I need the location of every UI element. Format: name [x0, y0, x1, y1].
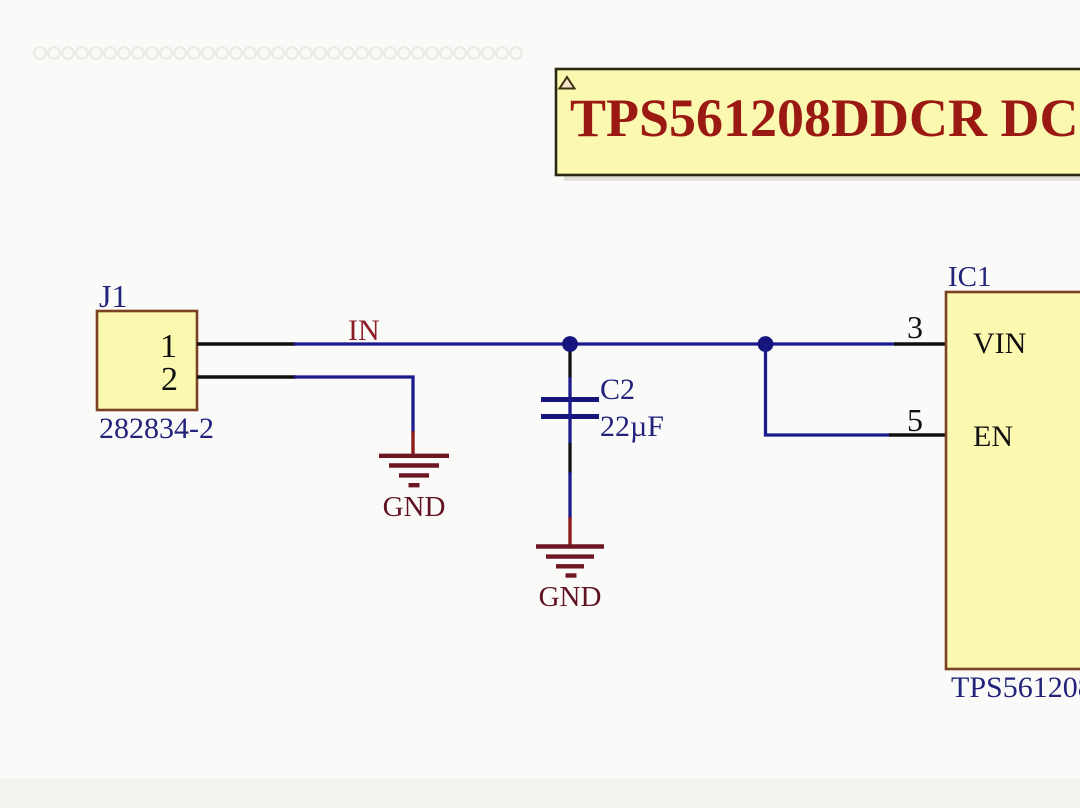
op-amp IC1 body	[946, 292, 1080, 669]
connector J1 body	[97, 311, 197, 410]
ground GND2 symbol	[536, 547, 604, 576]
svg-text:3: 3	[907, 309, 923, 345]
pin 3 line	[894, 342, 947, 345]
capacitor C2 lower lead black	[568, 443, 571, 473]
svg-text:22µF: 22µF	[600, 410, 664, 443]
ground lead GND2	[568, 517, 571, 546]
ground lead GND1	[411, 431, 414, 455]
title block	[556, 69, 1080, 175]
pin 5 line	[889, 433, 947, 436]
watermark dotted row	[34, 47, 522, 59]
wire IN main	[294, 342, 896, 345]
capacitor C2 upper lead blue	[568, 377, 571, 398]
wire EN branch	[766, 344, 892, 435]
title block shadow	[564, 78, 1080, 181]
title marker triangle	[560, 77, 575, 89]
wire pin2 to ground	[294, 377, 413, 433]
ground GND1 symbol	[379, 456, 449, 485]
capacitor C2 upper lead	[568, 350, 571, 378]
capacitor C2 plates	[541, 400, 599, 417]
capacitor C2 lower wire blue	[568, 472, 571, 519]
svg-text:282834-2: 282834-2	[99, 412, 214, 445]
pin 2 line	[197, 375, 296, 378]
svg-text:EN: EN	[973, 420, 1013, 453]
svg-text:1: 1	[160, 328, 177, 365]
junction node dot 2	[758, 336, 774, 352]
bottom band	[0, 779, 1080, 808]
junction node dot 1	[562, 336, 578, 352]
pin 1 line	[197, 342, 296, 345]
svg-text:IC1: IC1	[948, 261, 992, 293]
svg-text:TPS561208DDCR: TPS561208DDCR	[951, 671, 1080, 704]
svg-text:VIN: VIN	[973, 327, 1026, 360]
svg-text:GND: GND	[539, 581, 602, 613]
svg-text:GND: GND	[383, 491, 446, 523]
capacitor C2 mid line	[568, 399, 571, 443]
svg-text:J1: J1	[99, 278, 127, 314]
svg-text:TPS561208DDCR DC-DC: TPS561208DDCR DC-DC	[570, 88, 1080, 148]
svg-text:IN: IN	[348, 314, 380, 347]
svg-text:2: 2	[161, 361, 178, 398]
svg-text:C2: C2	[600, 373, 635, 406]
svg-text:5: 5	[907, 402, 923, 438]
